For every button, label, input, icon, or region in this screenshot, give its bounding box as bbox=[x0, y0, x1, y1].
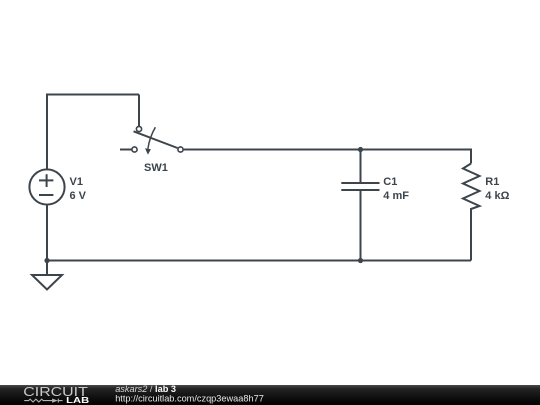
svg-text:C1: C1 bbox=[383, 176, 397, 188]
svg-text:4 mF: 4 mF bbox=[383, 190, 409, 202]
svg-text:6 V: 6 V bbox=[70, 190, 87, 202]
svg-text:SW1: SW1 bbox=[144, 162, 168, 174]
svg-text:LAB: LAB bbox=[66, 395, 89, 405]
svg-text:R1: R1 bbox=[485, 176, 499, 188]
svg-text:askars2 / lab 3: askars2 / lab 3 bbox=[115, 384, 176, 394]
svg-text:http://circuitlab.com/czqp3ewa: http://circuitlab.com/czqp3ewaa8h77 bbox=[115, 394, 264, 404]
svg-text:V1: V1 bbox=[70, 176, 83, 188]
svg-text:4 kΩ: 4 kΩ bbox=[485, 190, 509, 202]
